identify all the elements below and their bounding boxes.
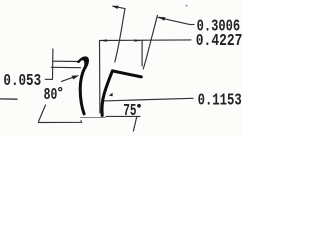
wire leader 0.3006	[158, 17, 194, 24]
node profile root bar	[82, 115, 103, 120]
node arrow leader A	[112, 6, 119, 9]
node degree mark 75	[137, 104, 141, 108]
node crest line lower	[51, 66, 80, 68]
node arrow dim right	[134, 39, 141, 41]
node arrow dim left	[100, 39, 107, 41]
node arrow leader 0.3006	[158, 17, 166, 21]
node profile left flank	[80, 68, 84, 114]
node profile top right line	[112, 71, 141, 77]
wire leader 80deg	[62, 77, 76, 82]
node crest line upper	[53, 60, 80, 62]
node profile right flank	[102, 71, 112, 116]
wire leader A top	[113, 6, 125, 8]
profile outline thick group	[77, 56, 142, 115]
svg-text:0.053: 0.053	[3, 73, 41, 91]
node angle symbol 75deg	[106, 116, 140, 131]
wire dimension line 0.1153	[104, 98, 193, 101]
node scan speck	[186, 5, 188, 7]
wire dimension line 0.4227	[100, 39, 191, 42]
node extension line V1	[99, 41, 101, 114]
node 0.053 extension bracket	[45, 49, 53, 79]
svg-text:80: 80	[44, 86, 58, 105]
node extension line V2	[141, 41, 143, 67]
svg-text:0.4227: 0.4227	[196, 32, 242, 51]
svg-text:0.1153: 0.1153	[198, 92, 242, 110]
node extension line B	[143, 15, 157, 69]
node degree mark 80	[59, 88, 62, 91]
node extension line A	[115, 9, 125, 62]
node angle symbol 80deg	[39, 105, 82, 123]
wire left reference line	[0, 98, 17, 100]
node arrow leader 80deg	[72, 75, 80, 79]
node arrow flank small	[109, 93, 113, 97]
svg-text:75: 75	[123, 102, 136, 121]
node profile top hook	[77, 56, 89, 69]
